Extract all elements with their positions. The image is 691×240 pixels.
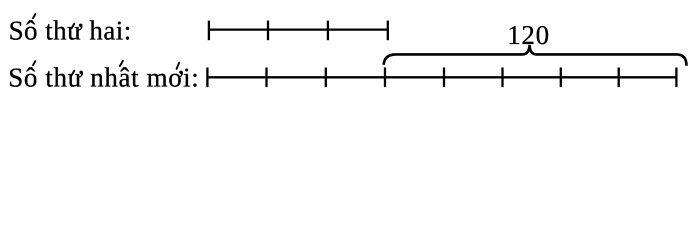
svg-text:Sô thư hai:: Sô thư hai: [9, 16, 132, 46]
svg-text:120: 120 [507, 20, 550, 50]
svg-text:Sô thư nhât mơi:: Sô thư nhât mơi: [8, 63, 199, 93]
